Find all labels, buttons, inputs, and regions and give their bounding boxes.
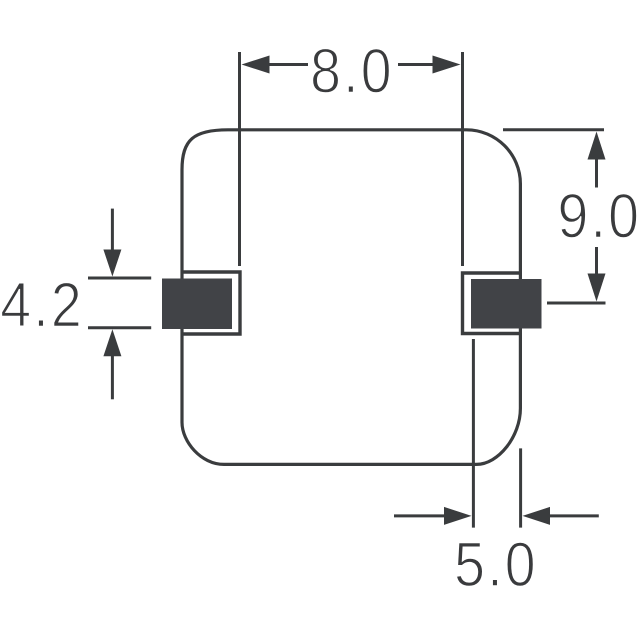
- svg-text:4.2: 4.2: [0, 269, 84, 340]
- svg-text:5.0: 5.0: [454, 529, 538, 600]
- svg-text:8.0: 8.0: [310, 35, 394, 106]
- svg-text:9.0: 9.0: [557, 180, 640, 251]
